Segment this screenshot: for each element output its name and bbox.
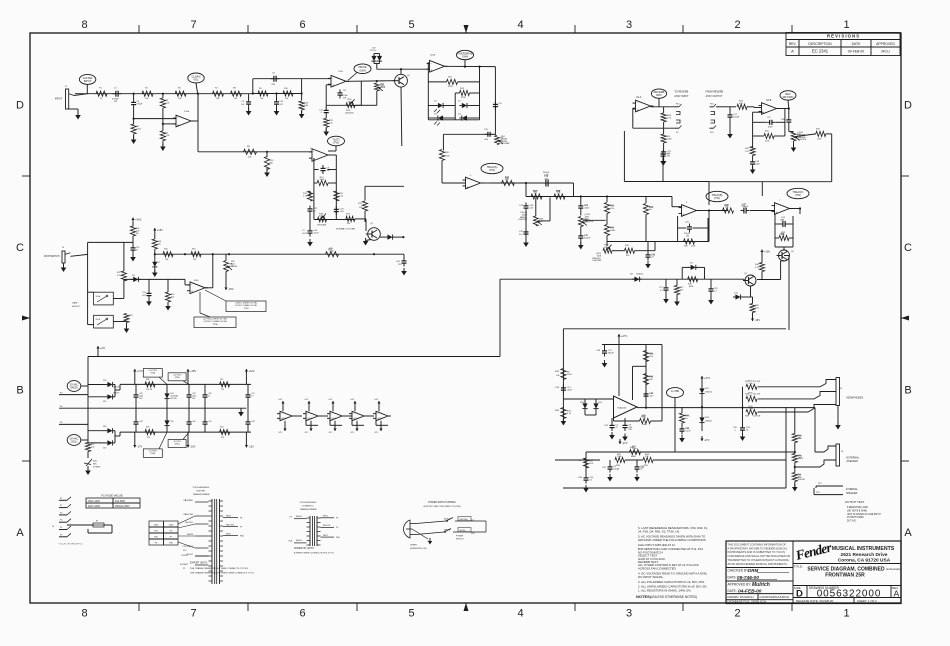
svg-text:10: 10	[746, 429, 749, 431]
svg-text:BLK/ORN: BLK/ORN	[185, 514, 194, 516]
svg-text:Corona, CA 91720 USA: Corona, CA 91720 USA	[838, 558, 891, 564]
svg-text:3: 3	[686, 202, 688, 204]
svg-text:R58: R58	[616, 465, 621, 467]
svg-text:D19: D19	[170, 421, 173, 423]
svg-text:C10: C10	[279, 101, 284, 103]
svg-text:R22: R22	[448, 77, 453, 79]
svg-text:P18: P18	[710, 104, 713, 106]
svg-text:10W-3W: 10W-3W	[798, 479, 806, 481]
svg-text:R42: R42	[745, 148, 750, 150]
svg-text:J5: J5	[840, 388, 843, 390]
svg-text:09-FEB-00: 09-FEB-00	[848, 49, 865, 53]
svg-text:R34: R34	[555, 410, 560, 412]
svg-text:THIS DOCUMENT CONTAINS INFORMA: THIS DOCUMENT CONTAINS INFORMATION OF	[728, 542, 787, 546]
svg-text:1N4002: 1N4002	[705, 421, 713, 423]
svg-text:10k: 10k	[158, 243, 161, 245]
svg-text:R10: R10	[284, 88, 289, 90]
svg-text:RED/YEL: RED/YEL	[226, 524, 234, 526]
svg-text:S2A: S2A	[93, 460, 97, 463]
svg-text:C48: C48	[251, 421, 254, 423]
svg-text:VOLUME: VOLUME	[501, 143, 510, 145]
svg-text:+: +	[467, 185, 469, 189]
svg-text:RED3: RED3	[226, 515, 231, 517]
svg-text:5: 5	[408, 19, 414, 31]
svg-text:ASSY INPUT: ASSY INPUT	[674, 95, 689, 98]
svg-text:D3: D3	[434, 114, 437, 116]
svg-text:10k: 10k	[171, 296, 174, 298]
svg-text:(UNLESS OTHERWISE NOTED): (UNLESS OTHERWISE NOTED)	[650, 595, 697, 599]
svg-text:D7: D7	[158, 262, 161, 264]
svg-text:4.7k: 4.7k	[117, 275, 121, 277]
svg-text:P50: P50	[154, 537, 159, 539]
svg-text:P11: P11	[818, 483, 822, 485]
svg-text:(YEL): (YEL)	[71, 440, 78, 444]
svg-text:GAIN: GAIN	[359, 68, 365, 72]
svg-text:6.8k: 6.8k	[304, 105, 308, 107]
svg-text:U2-A: U2-A	[430, 54, 436, 57]
svg-text:330k: 330k	[749, 408, 755, 410]
svg-text:RED2: RED2	[323, 535, 328, 537]
svg-text:22k: 22k	[680, 289, 683, 291]
svg-text:P4: P4	[155, 543, 158, 545]
svg-text:MCU: MCU	[881, 49, 890, 53]
svg-text:2621 Research Drive: 2621 Research Drive	[841, 552, 888, 558]
svg-text:P6: P6	[336, 518, 338, 520]
svg-text:C: C	[16, 242, 24, 254]
svg-text:DRAWN: WULRICH: DRAWN: WULRICH	[728, 595, 754, 599]
svg-text:RED3: RED3	[323, 516, 328, 518]
svg-text:470: 470	[221, 389, 224, 391]
svg-text:100k: 100k	[667, 138, 673, 140]
svg-text:R26: R26	[684, 246, 689, 248]
svg-text:.068: .068	[484, 139, 489, 141]
svg-text:C16: C16	[484, 129, 489, 131]
svg-text:+: +	[683, 213, 685, 217]
svg-text:NOTES:: NOTES:	[636, 594, 651, 599]
svg-text:J4, P18, Q4, R60, S2, TP16, U6: J4, P18, Q4, R60, S2, TP16, U6.	[638, 530, 680, 534]
svg-text:C33: C33	[555, 387, 560, 389]
svg-text:NO INPUT SIGNAL.: NO INPUT SIGNAL.	[638, 575, 664, 579]
svg-text:7: 7	[190, 608, 196, 620]
svg-text:-15V: -15V	[228, 287, 234, 291]
svg-text:D2 D3: D2 D3	[370, 50, 377, 52]
svg-text:F1: F1	[96, 521, 99, 523]
svg-text:R34: R34	[625, 245, 630, 247]
svg-text:D2: D2	[434, 101, 437, 103]
svg-text:470pF: 470pF	[137, 103, 143, 105]
svg-text:+12V: +12V	[374, 399, 379, 401]
svg-text:TP1A: TP1A	[212, 323, 218, 326]
svg-text:INTERNAL: INTERNAL	[846, 488, 858, 491]
svg-text:100k/200k: 100k/200k	[592, 260, 601, 262]
svg-text:R57: R57	[129, 315, 134, 317]
svg-text:DRV: DRV	[656, 93, 662, 97]
svg-text:P3: P3	[60, 392, 62, 394]
svg-text:FRONTWAN 25R: FRONTWAN 25R	[825, 573, 865, 579]
svg-text:100k/200k: 100k/200k	[585, 221, 594, 223]
svg-text:2.4k: 2.4k	[166, 135, 170, 137]
svg-text:GREEN: GREEN	[410, 545, 417, 547]
svg-text:EXPORT: EXPORT	[197, 491, 207, 493]
svg-text:D21: D21	[598, 402, 603, 404]
svg-text:SELECT: SELECT	[72, 306, 81, 308]
svg-text:TDA2040: TDA2040	[617, 407, 627, 410]
svg-text:D1: D1	[458, 101, 461, 103]
svg-text:28 T.H.D.: 28 T.H.D.	[847, 521, 857, 523]
svg-text:R1: R1	[99, 88, 103, 90]
svg-text:C24: C24	[780, 220, 785, 222]
svg-text:C18: C18	[519, 231, 524, 233]
svg-text:47k: 47k	[347, 223, 351, 225]
svg-text:RED/YEL: RED/YEL	[323, 525, 331, 527]
svg-text:C31: C31	[142, 292, 147, 294]
svg-text:-12V: -12V	[328, 432, 333, 434]
svg-text:R33: R33	[555, 371, 560, 373]
svg-text:(TB5): (TB5)	[175, 444, 180, 446]
svg-text:* (Tan/fn OF S/RxVE Pw): * (Tan/fn OF S/RxVE Pw)	[58, 544, 83, 546]
svg-text:P2: P2	[290, 517, 292, 519]
svg-text:R6: R6	[178, 88, 182, 90]
svg-text:EC 2341: EC 2341	[812, 49, 829, 54]
svg-text:+12V: +12V	[278, 399, 283, 401]
svg-text:R41: R41	[765, 131, 770, 133]
svg-text:D4: D4	[458, 114, 461, 116]
svg-text:+12V: +12V	[350, 399, 355, 401]
svg-text:R70: R70	[146, 427, 149, 429]
svg-text:OUTPUT TEST: OUTPUT TEST	[845, 500, 865, 504]
svg-text:.1: .1	[320, 112, 323, 114]
svg-text:+AC: +AC	[100, 346, 105, 350]
svg-text:CHOR/SAWG/ULRICH: CHOR/SAWG/ULRICH	[760, 595, 790, 599]
svg-text:2200: 2200	[755, 163, 760, 165]
svg-text:(TB4): (TB4)	[150, 453, 155, 455]
svg-text:P1: P1	[183, 568, 185, 570]
svg-text:7: 7	[779, 200, 781, 202]
svg-text:.1: .1	[734, 430, 737, 432]
svg-text:R49: R49	[745, 416, 750, 418]
svg-text:APPROVED BY:: APPROVED BY:	[728, 583, 752, 587]
svg-text:(TB3): (TB3)	[150, 373, 155, 375]
svg-text:4560: 4560	[194, 280, 199, 282]
svg-text:35V: 35V	[192, 398, 196, 400]
svg-text:C: C	[904, 242, 912, 254]
svg-text:P4: P4	[60, 520, 62, 522]
svg-text:1k: 1k	[100, 98, 103, 100]
svg-text:POWER: POWER	[456, 536, 464, 538]
svg-text:A PROPRIETARY NATURE TO FENDER: A PROPRIETARY NATURE TO FENDER MUSICAL	[728, 546, 788, 550]
svg-text:47pF: 47pF	[768, 127, 773, 129]
svg-text:2N5458/A: 2N5458/A	[317, 224, 327, 227]
svg-text:R72: R72	[220, 427, 223, 429]
svg-text:ATION FROM FENDER MUSICAL INST: ATION FROM FENDER MUSICAL INSTRUMENTS.	[728, 562, 788, 566]
svg-text:1. ALL RESISTORS IN OHMS, 1/4W: 1. ALL RESISTORS IN OHMS, 1/4W, 5%.	[638, 589, 692, 593]
svg-text:SWITCH: SWITCH	[456, 539, 464, 541]
svg-text:R4: R4	[145, 88, 149, 90]
svg-text:INPUT: INPUT	[84, 79, 92, 83]
svg-text:TITLE:: TITLE:	[794, 564, 803, 568]
svg-text:R8: R8	[233, 88, 237, 90]
svg-text:220k: 220k	[691, 246, 695, 248]
svg-text:SPEAKER: SPEAKER	[847, 460, 859, 463]
svg-text:2.2k: 2.2k	[166, 102, 170, 104]
svg-text:220k: 220k	[445, 155, 450, 157]
svg-text:1.5k: 1.5k	[303, 195, 308, 197]
svg-text:.0047: .0047	[313, 232, 319, 234]
svg-text:R21: R21	[505, 177, 510, 180]
svg-text:4.7k: 4.7k	[755, 307, 759, 309]
svg-text:P9: P9	[170, 531, 173, 533]
svg-text:1N4002: 1N4002	[705, 392, 713, 394]
svg-text:47: 47	[208, 395, 210, 397]
svg-text:TP1B: TP1B	[243, 308, 249, 310]
svg-text:220: 220	[398, 264, 402, 266]
svg-text:D14: D14	[103, 380, 106, 382]
svg-text:3: 3	[626, 608, 632, 620]
svg-text:TRANSMITTED TO OTHERS WITHOUT: TRANSMITTED TO OTHERS WITHOUT AUTHORIZ-	[728, 558, 790, 562]
svg-text:4.7: 4.7	[660, 290, 664, 292]
svg-text:BLACK: BLACK	[296, 515, 303, 518]
svg-text:R50: R50	[164, 249, 169, 251]
svg-text:1M: 1M	[649, 379, 652, 381]
svg-text:P6: P6	[184, 514, 186, 516]
svg-text:GAIN: GAIN	[72, 302, 78, 305]
svg-text:561pF: 561pF	[733, 116, 740, 118]
svg-text:-12V: -12V	[304, 432, 309, 434]
svg-text:.047: .047	[649, 395, 654, 397]
svg-text:C15: C15	[544, 174, 549, 177]
svg-text:DOMESTIC UNITS:: DOMESTIC UNITS:	[294, 548, 315, 550]
svg-text:.001: .001	[666, 155, 671, 157]
svg-text:B: B	[16, 385, 23, 397]
svg-text:100k: 100k	[617, 456, 623, 458]
svg-text:1N4002: 1N4002	[636, 274, 644, 276]
svg-text:A: A	[894, 589, 900, 599]
svg-text:R51: R51	[192, 249, 197, 251]
svg-text:THE TRANSFORMER VIOLET WIRE CO: THE TRANSFORMER VIOLET WIRE CONNECTS TO …	[190, 567, 249, 570]
svg-text:2.2: 2.2	[714, 290, 718, 292]
svg-text:U4-B: U4-B	[766, 100, 772, 102]
svg-text:09-746-00: 09-746-00	[737, 575, 759, 581]
svg-text:680k: 680k	[689, 286, 693, 288]
svg-text:SERVICE DIAGRAM, COMBINED: SERVICE DIAGRAM, COMBINED	[807, 566, 885, 572]
svg-text:+: +	[776, 211, 778, 215]
svg-text:220V~240V: 220V~240V	[88, 506, 101, 508]
svg-text:U1-A: U1-A	[184, 110, 190, 113]
svg-text:100pF: 100pF	[613, 468, 620, 470]
svg-text:47k: 47k	[798, 437, 801, 439]
svg-text:+: +	[191, 290, 193, 294]
svg-text:P9: P9	[676, 132, 678, 134]
svg-text:R13: R13	[358, 203, 363, 205]
svg-text:DRM: DRM	[748, 568, 758, 573]
svg-text:DATE:: DATE:	[728, 576, 737, 580]
svg-text:P12: P12	[816, 492, 821, 494]
svg-text:1: 1	[843, 19, 849, 31]
svg-text:R19: R19	[346, 214, 351, 216]
svg-text:REV.: REV.	[789, 42, 797, 46]
svg-text:2u2: 2u2	[519, 234, 523, 236]
svg-text:C16: C16	[519, 205, 524, 207]
svg-text:F1 FUSE VALUE: F1 FUSE VALUE	[101, 494, 122, 498]
svg-text:P7: P7	[170, 537, 173, 539]
svg-text:P2: P2	[60, 505, 62, 507]
svg-text:P10: P10	[154, 531, 159, 533]
svg-text:P6A: P6A	[240, 534, 244, 537]
svg-text:NORMAL VOLUME: NORMAL VOLUME	[336, 227, 356, 230]
svg-text:MUSICAL INSTRUMENTS: MUSICAL INSTRUMENTS	[832, 546, 895, 552]
svg-text:2: 2	[734, 19, 740, 31]
svg-text:A: A	[904, 527, 912, 539]
svg-text:J4: J4	[52, 526, 54, 528]
svg-text:-12V: -12V	[248, 445, 254, 449]
svg-text:APPROVED: APPROVED	[876, 42, 895, 46]
svg-text:U4-A: U4-A	[636, 96, 642, 99]
svg-text:100k: 100k	[817, 139, 821, 141]
svg-text:EXPORT UNITS:: EXPORT UNITS:	[190, 563, 208, 565]
svg-text:47k: 47k	[626, 255, 629, 257]
svg-text:04-FEB-00: 04-FEB-00	[738, 588, 762, 594]
svg-text:R59: R59	[644, 465, 649, 467]
svg-text:DATABASE FILE: 23565.SCH: DATABASE FILE: 23565.SCH	[728, 600, 766, 604]
svg-text:.001: .001	[529, 207, 534, 209]
svg-text:J7?: J7?	[427, 541, 430, 543]
svg-text:D9: D9	[690, 263, 693, 265]
svg-text:470k: 470k	[448, 86, 453, 88]
svg-text:1.5k: 1.5k	[745, 151, 749, 153]
svg-text:+17V: +17V	[137, 369, 143, 373]
svg-text:100k: 100k	[381, 86, 385, 88]
svg-text:470k: 470k	[461, 97, 466, 99]
svg-text:15V/1W: 15V/1W	[170, 398, 177, 400]
svg-text:6: 6	[299, 19, 305, 31]
svg-text:P/N 0048096000: P/N 0048096000	[193, 487, 210, 489]
svg-text:R23: R23	[460, 88, 465, 90]
svg-text:+: +	[637, 108, 639, 112]
svg-text:4.7k: 4.7k	[755, 267, 759, 269]
svg-text:TL0: TL0	[355, 418, 358, 420]
svg-text:J3: J3	[62, 247, 65, 249]
svg-text:10k: 10k	[145, 98, 149, 100]
svg-text:-12V: -12V	[374, 432, 379, 434]
svg-text:D10: D10	[734, 293, 739, 295]
svg-text:J1: J1	[65, 86, 68, 88]
svg-text:.047: .047	[326, 170, 331, 172]
svg-text:P6: P6	[60, 534, 62, 536]
svg-text:(EXPORT LINE CORD WIRE COLORS): (EXPORT LINE CORD WIRE COLORS)	[423, 506, 460, 508]
svg-text:SPEAKER: SPEAKER	[846, 492, 858, 495]
svg-text:C9: C9	[242, 101, 245, 103]
svg-text:Mulrich: Mulrich	[752, 582, 770, 588]
svg-text:10k: 10k	[216, 98, 220, 100]
svg-text:RETURN: RETURN	[783, 95, 794, 99]
svg-text:10k: 10k	[178, 98, 182, 100]
svg-text:220k: 220k	[137, 128, 141, 130]
svg-text:A WHITE WIRE CONNECTS PS3 TO P: A WHITE WIRE CONNECTS PS3 TO P1	[294, 552, 335, 555]
svg-text:1.8k: 1.8k	[798, 457, 802, 459]
svg-text:R47: R47	[117, 272, 122, 274]
svg-text:THE TRANSFORMER VIOLET/WHITE W: THE TRANSFORMER VIOLET/WHITE WIRE CONNEC…	[190, 572, 255, 575]
svg-text:D22: D22	[705, 388, 710, 390]
svg-text:GROUND UNDER THE FOLLOWING CON: GROUND UNDER THE FOLLOWING CONDITIONS:	[638, 538, 707, 542]
svg-text:100V: 100V	[154, 525, 159, 527]
svg-text:VIOLET: VIOLET	[181, 555, 189, 557]
svg-text:2: 2	[470, 175, 472, 177]
svg-text:8: 8	[81, 19, 87, 31]
svg-text:DRIVE: DRIVE	[231, 266, 238, 268]
svg-text:+VAC: +VAC	[135, 218, 142, 222]
svg-text:P6: P6	[60, 422, 62, 424]
svg-text:TL0: TL0	[379, 418, 382, 420]
svg-text:-27V: -27V	[622, 441, 628, 445]
svg-text:470: 470	[147, 437, 150, 439]
svg-text:(BLUE): (BLUE)	[460, 530, 466, 532]
svg-text:.022: .022	[279, 104, 284, 106]
svg-text:-12V: -12V	[278, 432, 283, 434]
svg-text:P1: P1	[60, 498, 62, 500]
svg-text:1N4002: 1N4002	[113, 393, 119, 395]
svg-text:ASSY OUTPUT: ASSY OUTPUT	[706, 95, 723, 98]
svg-text:.0047: .0047	[584, 207, 590, 209]
svg-text:1k: 1k	[685, 418, 688, 420]
svg-text:470 1W: 470 1W	[753, 381, 760, 383]
svg-text:10k: 10k	[285, 98, 288, 100]
svg-text:F1A 250V: F1A 250V	[115, 500, 126, 503]
svg-text:.022: .022	[142, 295, 147, 297]
svg-text:7: 7	[190, 19, 196, 31]
svg-text:R18: R18	[556, 191, 561, 193]
svg-text:1M: 1M	[193, 259, 196, 261]
svg-text:+/-22VDC CLEAN CH. SEL: +/-22VDC CLEAN CH. SEL	[203, 320, 228, 323]
svg-text:330k: 330k	[610, 230, 616, 232]
svg-text:+15V: +15V	[764, 250, 770, 254]
svg-text:22: 22	[615, 427, 618, 429]
svg-text:(NO NOTE 8 OHM): (NO NOTE 8 OHM)	[847, 510, 867, 512]
svg-text:-17V: -17V	[137, 445, 143, 449]
svg-text:470 1W: 470 1W	[753, 394, 760, 396]
svg-text:C11: C11	[343, 90, 347, 92]
svg-text:220k: 220k	[765, 141, 769, 143]
svg-text:P4: P4	[60, 406, 62, 408]
svg-text:DOMESTIC: DOMESTIC	[302, 506, 314, 508]
svg-text:C27: C27	[659, 287, 664, 289]
svg-text:1.5k: 1.5k	[339, 195, 344, 197]
svg-text:B: B	[904, 385, 911, 397]
svg-text:FOOTSWITCH: FOOTSWITCH	[44, 256, 60, 258]
svg-text:R43: R43	[816, 128, 821, 130]
svg-text:R71: R71	[220, 379, 223, 381]
svg-text:3: 3	[626, 19, 632, 31]
svg-text:100k: 100k	[320, 179, 326, 181]
svg-text:P5: P5	[240, 526, 242, 528]
svg-text:C23: C23	[685, 222, 690, 224]
svg-text:D23: D23	[705, 417, 710, 419]
svg-text:1k: 1k	[649, 209, 652, 211]
svg-text:+: +	[763, 111, 765, 115]
svg-text:Q3: Q3	[744, 273, 748, 275]
svg-text:A: A	[16, 527, 24, 539]
svg-text:1.5k: 1.5k	[329, 122, 333, 124]
svg-text:R44: R44	[755, 264, 760, 266]
svg-text:GAIN: GAIN	[462, 55, 468, 59]
svg-text:5: 5	[408, 608, 414, 620]
svg-text:2: 2	[734, 608, 740, 620]
svg-text:.0022: .0022	[302, 233, 308, 235]
svg-text:4: 4	[517, 19, 523, 31]
svg-text:1: 1	[498, 105, 500, 107]
svg-text:561pF: 561pF	[584, 237, 591, 239]
svg-text:Q1: Q1	[370, 223, 374, 225]
svg-text:.033: .033	[271, 84, 276, 86]
